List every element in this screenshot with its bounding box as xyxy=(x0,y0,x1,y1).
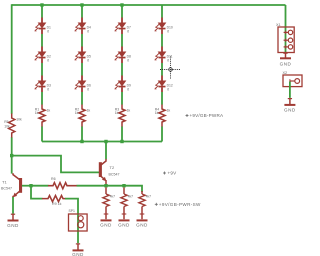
wire lower bus (column commons to T2 collector) xyxy=(42,141,162,143)
LED D4 column B row 1 xyxy=(75,18,92,35)
resistor R6 horizontal xyxy=(48,177,77,189)
wire base node to speaker SP1 xyxy=(31,186,42,199)
svg-text:10k: 10k xyxy=(16,118,22,122)
wire left rail vertical (below R1 down to T1 collector) xyxy=(11,137,13,173)
LED D3 column A row 3 xyxy=(35,76,52,93)
wire left rail vertical (upper part, above R1) xyxy=(11,4,13,114)
svg-text:1k: 1k xyxy=(75,111,79,115)
LED D11 column D row 2 xyxy=(155,47,173,64)
svg-text:rt: rt xyxy=(87,29,89,33)
svg-text:GND: GND xyxy=(284,107,296,112)
ground below X2 xyxy=(284,99,296,113)
connector X1 battery xyxy=(276,23,294,53)
svg-text:rt: rt xyxy=(87,87,89,91)
resistor R10 xyxy=(103,187,115,219)
origin crosshair cursor xyxy=(160,57,181,80)
svg-text:rt: rt xyxy=(47,87,49,91)
wire base feed: left rail to T2 base xyxy=(12,156,99,173)
svg-text:rt: rt xyxy=(127,87,129,91)
svg-text:10k: 10k xyxy=(4,125,10,129)
svg-text:T2: T2 xyxy=(110,165,115,170)
junction col B top xyxy=(80,3,83,6)
LED D2 column A row 2 xyxy=(35,47,52,64)
wire emitter bus segment xyxy=(106,185,124,187)
svg-text:rt: rt xyxy=(47,58,49,62)
svg-text:GND: GND xyxy=(72,252,84,256)
wire LED column C vertical segments xyxy=(121,5,123,142)
junction lower bus T2 collector tap xyxy=(104,140,107,143)
svg-text:4k7: 4k7 xyxy=(128,195,134,199)
wire T2 collector xyxy=(105,142,107,160)
LED D5 column B row 2 xyxy=(75,47,92,64)
svg-text:R9 1k: R9 1k xyxy=(52,202,62,206)
svg-text:rt: rt xyxy=(167,58,169,62)
ground below X1 xyxy=(280,53,292,66)
svg-text:GND: GND xyxy=(118,222,130,227)
wire R9 to speaker xyxy=(65,199,78,244)
svg-text:rt: rt xyxy=(127,58,129,62)
svg-text:X1: X1 xyxy=(276,23,281,27)
wire LED column B vertical segments xyxy=(81,5,83,142)
svg-text:GND: GND xyxy=(136,222,148,227)
svg-text:R5: R5 xyxy=(4,120,8,124)
resistor R11 xyxy=(121,187,133,219)
svg-text:+9V/GB-PWR-SW: +9V/GB-PWR-SW xyxy=(159,202,201,207)
junction col C top xyxy=(120,3,123,6)
svg-text:4k7: 4k7 xyxy=(110,195,116,199)
node +9V label near T2 xyxy=(163,170,177,175)
ground below R10 xyxy=(100,220,112,227)
wire LED column D vertical segments xyxy=(161,5,163,142)
LED D10 column D row 1 xyxy=(155,18,173,35)
junction col A top xyxy=(40,3,43,6)
LED D6 column B row 3 xyxy=(75,76,92,93)
resistor R9 horizontal xyxy=(42,196,66,207)
resistor R12 xyxy=(139,191,151,219)
svg-text:GND: GND xyxy=(100,222,112,227)
resistor R5 on left rail xyxy=(4,114,22,138)
LED D7 column C row 1 xyxy=(115,18,132,35)
wire T1 base stub xyxy=(22,185,31,187)
ground below R11 xyxy=(118,220,130,227)
svg-text:GND: GND xyxy=(7,223,19,228)
node +9V/GB-PWR-SW label xyxy=(155,202,201,207)
ground below SP1 xyxy=(72,244,84,256)
wire +9V bus drop into X1 xyxy=(285,5,287,53)
LED D12 column D row 3 xyxy=(155,76,173,93)
wire top bus +9V from left rail to connector X1 xyxy=(12,4,286,6)
svg-text:1k: 1k xyxy=(155,111,159,115)
wire LED column A vertical segments xyxy=(41,5,43,142)
svg-text:1k: 1k xyxy=(127,109,131,113)
svg-text:4k7: 4k7 xyxy=(146,195,152,199)
svg-text:GND: GND xyxy=(280,61,292,66)
ground below T1 xyxy=(7,197,19,228)
junction T1 base node xyxy=(29,184,32,187)
wire R6 to emitter bus xyxy=(77,185,106,187)
LED D1 column A row 1 xyxy=(35,18,52,35)
svg-text:BC547: BC547 xyxy=(109,173,120,177)
svg-text:1k: 1k xyxy=(115,111,119,115)
junction lower bus col B xyxy=(80,140,83,143)
wire emitter bus to R12 corner xyxy=(124,186,142,192)
svg-text:1k: 1k xyxy=(35,111,39,115)
svg-text:rt: rt xyxy=(87,58,89,62)
transistor T2 xyxy=(99,159,120,184)
svg-text:1k: 1k xyxy=(87,109,91,113)
svg-text:rt: rt xyxy=(47,29,49,33)
LED D9 column C row 3 xyxy=(115,76,132,93)
resistor R4 column D xyxy=(155,105,171,127)
svg-text:rt: rt xyxy=(167,29,169,33)
svg-text:R6: R6 xyxy=(51,177,56,181)
connector X2 xyxy=(283,71,303,87)
svg-text:1k: 1k xyxy=(47,109,51,113)
svg-text:rt: rt xyxy=(167,87,169,91)
svg-text:+9V: +9V xyxy=(168,170,178,175)
LED D8 column C row 2 xyxy=(115,47,132,64)
speaker SP1 xyxy=(69,209,88,231)
svg-text:+9V/GB-PWRA: +9V/GB-PWRA xyxy=(190,113,224,118)
svg-text:T1: T1 xyxy=(2,179,7,184)
junction T2 emitter node xyxy=(104,184,107,187)
node +9V/GB-PWRA label xyxy=(186,113,224,118)
wire base node to R6 xyxy=(31,185,48,187)
junction left rail base-feed tap xyxy=(10,154,13,157)
ground below R12 xyxy=(136,220,148,227)
junction emitter bus R11 tap xyxy=(122,184,125,187)
svg-text:X2: X2 xyxy=(283,71,288,75)
resistor R1 column A xyxy=(35,105,51,127)
svg-text:rt: rt xyxy=(127,29,129,33)
svg-text:SP1: SP1 xyxy=(69,209,76,213)
resistor R2 column B xyxy=(75,105,91,127)
junction lower bus col C xyxy=(120,140,123,143)
transistor T1 xyxy=(1,173,22,197)
svg-text:BC547: BC547 xyxy=(1,187,12,191)
wire X2 pin to ground xyxy=(289,82,291,98)
resistor R3 column C xyxy=(115,105,131,127)
svg-text:1k: 1k xyxy=(167,109,171,113)
